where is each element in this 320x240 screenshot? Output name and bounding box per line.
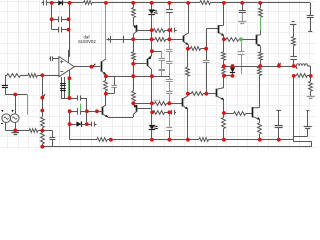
wire Q1 base to node	[137, 30, 152, 32]
wire x133 down to row76	[133, 64, 135, 76]
wire x15.2 down to source	[15, 95, 17, 114]
wire corner to sources	[5, 94, 27, 96]
wire right branch down	[69, 19, 71, 29]
wire Q6 emitter row y117	[108, 117, 133, 119]
ferrite bead squiggle above node	[278, 63, 281, 64]
wire Q6 base	[97, 111, 103, 113]
resistor R4 row y30	[153, 29, 164, 33]
plus mark V1	[1, 110, 3, 112]
resistor R12 vertical x188	[187, 49, 189, 67]
resistor R23 x260 upper	[260, 65, 262, 68]
wire Q2 base	[169, 39, 183, 41]
wire Q5 emitter down to bottom bus	[187, 109, 189, 140]
resistor R30 x42.3 lower	[42, 131, 44, 133]
capacitor stack under op-amp	[60, 83, 66, 85]
wire corner down to row111	[86, 98, 88, 111]
wire rail to Q2 collector	[188, 3, 190, 34]
resistor R11 row y112.3	[153, 111, 165, 115]
inductor L1	[294, 64, 311, 66]
wire row y76	[106, 76, 169, 78]
wire x86.8 vertical	[86, 111, 88, 124]
tick mark right of RL node	[296, 66, 298, 68]
green wire under op-amp	[68, 78, 70, 97]
capacitor C20 x278.7	[276, 110, 281, 112]
green wire x241 with gray capacitor C15	[241, 39, 243, 52]
gray ground under C16	[242, 13, 244, 21]
gray capacitor chain A x161.8	[161, 51, 163, 58]
wire y66 right	[260, 66, 294, 68]
transistor Q10 NPN	[256, 35, 258, 45]
resistor R16 under rail x260	[260, 3, 262, 8]
resistor R17 Q10 emitter	[260, 46, 262, 52]
resistor R19 vertical x224 between nodes	[222, 67, 225, 76]
gray capacitor chain B x169.3 upper	[169, 39, 171, 49]
tick mark at op-amp output node	[93, 64, 95, 66]
resistor R7 inverting input chain	[20, 75, 28, 77]
resistor R31 row y39.3	[155, 38, 166, 42]
junction dots red	[50, 1, 54, 5]
green stub above C23 plate	[80, 104, 82, 111]
row y39.3: resistor R15	[224, 39, 226, 41]
wire from D1 cathode down	[69, 3, 71, 19]
wire output node to Q4 base	[91, 66, 100, 68]
wire row y93.7 to Q8 base	[206, 93, 215, 95]
wire L1 right down	[310, 66, 312, 76]
gray capacitor C14 x206	[206, 49, 208, 61]
resistor R26 x293	[293, 46, 295, 57]
wire row y98 with capacitor C10	[61, 98, 78, 100]
tiny gray marks under chain	[154, 100, 155, 101]
LED D2 under rail	[151, 3, 153, 9]
capacitor C19 x307.7	[306, 110, 309, 112]
capacitor C1 input stub top-left	[42, 2, 44, 4]
op-amp U1	[68, 50, 70, 63]
green wire x188	[187, 76, 189, 94]
svg-text:6193V02: 6193V02	[78, 39, 96, 44]
wire x293.7 long vertical	[293, 76, 295, 142]
row y112.3 wire	[152, 112, 153, 114]
capacitor C17 x293 above node	[290, 56, 297, 58]
green wire x169.3 down	[169, 112, 171, 127]
wire op-amp output	[74, 66, 91, 68]
wire x224 down to Q8 collector	[223, 76, 225, 88]
tick mark x42 node	[43, 94, 45, 96]
wire node column x69.4	[69, 78, 71, 98]
wire x152 column	[151, 76, 153, 103]
transistor Q11 NPN	[252, 107, 254, 117]
transistor Q6 NPN	[102, 107, 104, 115]
LED D3 x152	[151, 112, 153, 125]
transistor Q5 NPN	[178, 103, 183, 105]
resistor R3 under rail	[133, 3, 135, 8]
wire vertical joining row30 and row39 at x169.3	[169, 30, 171, 39]
plus mark V2	[12, 110, 14, 112]
AC source V2	[10, 114, 19, 123]
green wire x27.5	[27, 95, 29, 115]
capacitor C5 stub right of node	[169, 30, 172, 32]
wire y75.9 left pair	[224, 75, 233, 77]
green junction dot	[239, 37, 243, 41]
resistor R5 vertical x133	[133, 39, 135, 52]
resistor R24 parallel with L1	[294, 75, 297, 77]
green wire under C6	[169, 12, 171, 30]
transistor Q1 PNP	[133, 25, 136, 28]
ground G1 right	[307, 96, 315, 98]
wire x69.6 vertical	[69, 111, 71, 139]
wire Q7 base to x152 column	[137, 108, 152, 110]
wires source bottoms	[5, 122, 7, 130]
resistor R21 vertical x224 bottom	[223, 113, 225, 118]
green wire net A vertical	[105, 3, 107, 59]
capacitor C18 open top x293	[290, 24, 296, 26]
row y111.3 with capacitor C23	[70, 111, 78, 113]
gray capacitor chain B x169.3 lower	[169, 76, 171, 79]
wire y66 to right	[233, 66, 261, 68]
capacitor C3 row1	[52, 19, 58, 21]
wire to op-amp V+ pin	[69, 29, 71, 31]
wire left branch down	[51, 19, 53, 29]
wire node x133 y63.8 to Q3 base	[133, 63, 146, 65]
row y113: wire and resistor R20	[224, 113, 234, 115]
transistor Q7 PNP	[133, 103, 135, 104]
resistor R13 row y48.7	[188, 48, 191, 50]
wire LED column down	[151, 30, 153, 51]
minus mark V1 bottom	[1, 123, 3, 125]
wire x106 down to Q6 collector	[105, 94, 107, 105]
resistor R9 vertical x133 mid	[133, 76, 135, 91]
resistor R22 Q11 emitter	[259, 120, 261, 123]
transistor Q8 NPN	[216, 89, 218, 97]
transistor Q2 NPN	[183, 33, 188, 36]
wire top rail right to corner	[210, 2, 310, 4]
capacitor C8 wide plates row	[107, 39, 134, 41]
capacitor C4 row2	[52, 29, 58, 31]
resistor R25 to ground	[310, 76, 312, 81]
diode D4 vertical x232.5	[232, 66, 234, 67]
capacitor C2 right edge battery-like	[307, 15, 314, 17]
wire green node to Q10 base	[241, 39, 256, 41]
wire row y39.3 from node to dot	[133, 39, 151, 41]
capacitor C6 under rail	[169, 3, 171, 10]
wire op-amp noninverting input with capacitor C9 stub	[49, 58, 50, 60]
resistor R2 top rail	[200, 1, 211, 5]
resistor R1 top rail	[84, 1, 93, 5]
wire R4 to node	[152, 30, 154, 32]
resistor R32 sources to x42 column	[15, 130, 29, 132]
capacitor C16 under rail x242	[242, 3, 244, 10]
row y93.7: resistor R14	[188, 93, 191, 95]
transistor Q9 NPN	[206, 28, 218, 30]
row y103.3 wire	[133, 103, 152, 105]
resistor R10 row y103.3	[155, 102, 167, 106]
capacitor C12 stub row y112.3	[169, 112, 171, 114]
bottom rail y146.7	[42, 146, 311, 148]
resistor R28 bottom bus	[199, 138, 209, 142]
ground G2 sources	[15, 130, 17, 132]
gray capacitor C13 x169.3	[166, 127, 172, 129]
row y124.1 with diode D5	[70, 124, 77, 126]
wire bottom bus y139.7	[70, 139, 97, 141]
wire Q9 base corner down x206	[206, 29, 208, 49]
wire inverting node down x42.3	[42, 75, 44, 117]
wire from D1 anode down	[51, 3, 53, 19]
capacitor C22 left edge	[5, 75, 7, 85]
transistor Q3 PNP	[151, 51, 153, 55]
gray capacitor C11 feedback loop	[106, 76, 114, 78]
resistor R18 vertical x224	[223, 39, 225, 52]
wire corner bottom right	[294, 141, 312, 143]
resistor R8 vertical x106	[105, 76, 107, 80]
wire y66 left pair	[224, 66, 233, 68]
wire node51 right	[152, 51, 162, 53]
resistor R6 inverting input chain	[5, 75, 7, 77]
resistor R27 bottom bus	[97, 138, 107, 142]
resistor R29 x42.3	[41, 117, 45, 128]
green wire x260	[260, 17, 262, 30]
capacitor C24 stub right	[87, 124, 92, 126]
transistor Q4 NPN	[101, 61, 103, 71]
AC source V1	[2, 114, 11, 123]
grid background	[0, 0, 315, 150]
diode D1 top-left	[52, 2, 59, 4]
capacitor C21 branch x52.4	[42, 130, 52, 132]
wire top rail middle	[92, 2, 200, 4]
